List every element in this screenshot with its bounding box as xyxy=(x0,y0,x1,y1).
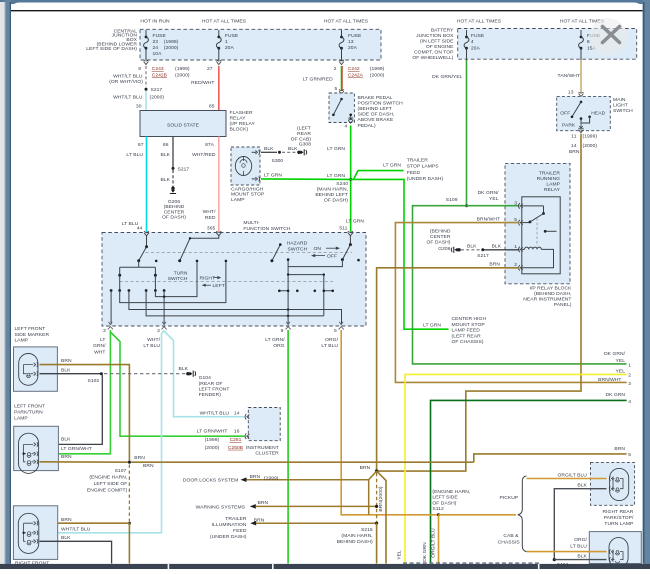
svg-text:5: 5 xyxy=(335,86,338,92)
svg-text:RED/WHT: RED/WHT xyxy=(191,80,214,86)
svg-text:(BEHIND LEFT: (BEHIND LEFT xyxy=(358,106,392,112)
wire LT GRN (brake switch to S240 to multifunction switch 511) xyxy=(350,126,352,232)
svg-text:BLK: BLK xyxy=(264,146,274,152)
svg-text:CARGO/HIGH: CARGO/HIGH xyxy=(231,186,264,192)
svg-text:LIGHT: LIGHT xyxy=(613,103,628,109)
svg-text:14: 14 xyxy=(571,143,577,149)
right blue frame bar xyxy=(643,0,650,569)
svg-text:LT GRN/RED: LT GRN/RED xyxy=(303,76,333,82)
svg-text:LT GRN/WHT: LT GRN/WHT xyxy=(197,429,228,435)
BRN junction node xyxy=(375,469,378,472)
turn switch common bar xyxy=(120,261,156,276)
svg-text:G206: G206 xyxy=(438,246,450,252)
splice warning systems xyxy=(375,505,378,508)
svg-text:(2000): (2000) xyxy=(583,143,598,149)
svg-text:YEL: YEL xyxy=(396,550,402,560)
svg-text:5: 5 xyxy=(628,452,631,458)
svg-text:YEL: YEL xyxy=(616,368,626,374)
svg-text:DK GRN/YEL: DK GRN/YEL xyxy=(432,74,463,80)
svg-text:OFF: OFF xyxy=(560,110,570,116)
svg-text:I/P RELAY BLOCK: I/P RELAY BLOCK xyxy=(530,285,573,291)
svg-text:DK GRN/: DK GRN/ xyxy=(478,190,500,196)
right front lamp pins xyxy=(34,521,36,525)
svg-text:13: 13 xyxy=(348,39,354,45)
svg-text:(2000): (2000) xyxy=(150,94,165,100)
svg-text:BLK: BLK xyxy=(61,535,71,541)
svg-text:LT BLU: LT BLU xyxy=(321,343,338,349)
ground G206 (behind center of dash) xyxy=(170,187,176,194)
svg-text:ORG/LT BLU: ORG/LT BLU xyxy=(430,528,436,558)
park/turn lamp body xyxy=(19,433,39,473)
wire DK GRN/YEL (S109 to relay pin 3 and down-left) xyxy=(413,206,627,364)
terminal 44 entry xyxy=(144,233,149,236)
svg-text:C243: C243 xyxy=(152,66,164,72)
middle blade at 365 xyxy=(180,236,219,261)
relay pin 1 xyxy=(519,247,520,253)
relay pin 5 xyxy=(519,220,520,226)
routing stub x155.4 to middle contact x197 xyxy=(155,262,197,297)
svg-text:FENDER): FENDER) xyxy=(199,392,222,398)
svg-text:LT GRN: LT GRN xyxy=(346,218,364,224)
fuse F4 20A xyxy=(466,30,468,37)
svg-text:FUSE: FUSE xyxy=(471,33,485,39)
close button X icon xyxy=(603,27,620,43)
svg-text:ORG/LT BLU: ORG/LT BLU xyxy=(557,473,587,479)
svg-text:BRN/WHT: BRN/WHT xyxy=(477,216,500,222)
svg-text:OF DASH): OF DASH) xyxy=(432,500,456,506)
svg-text:(OR WHT/VIO): (OR WHT/VIO) xyxy=(109,79,143,85)
svg-text:8: 8 xyxy=(138,66,141,72)
svg-text:POSITION SWITCH: POSITION SWITCH xyxy=(358,100,404,106)
wire LT GRN/RED (fuse 13 to brake switch) xyxy=(341,66,343,91)
svg-text:LT BLU: LT BLU xyxy=(143,343,160,349)
splice S107 xyxy=(128,461,131,464)
wire BRN (to right front lamp) xyxy=(40,522,130,524)
svg-text:COMPT, ON TOP: COMPT, ON TOP xyxy=(414,49,454,55)
svg-text:BLK: BLK xyxy=(161,177,171,183)
wire BRN (light switch down to junction with edge-5 feed) xyxy=(377,134,581,471)
svg-text:(BEHIND: (BEHIND xyxy=(430,229,451,235)
svg-text:(UNDER DASH): (UNDER DASH) xyxy=(210,534,247,540)
wire BLK (side marker to S102) xyxy=(40,373,101,375)
wire WHT/LT BLU dashed (fuse 23 to S217) xyxy=(145,66,147,87)
svg-text:G308: G308 xyxy=(299,142,311,148)
svg-text:WHT: WHT xyxy=(94,349,105,355)
svg-text:LT GRN: LT GRN xyxy=(423,322,441,328)
wire WHT/LT BLU 2000 (S217 to flasher 30) xyxy=(145,91,147,111)
svg-text:1: 1 xyxy=(514,244,517,250)
svg-text:BRN: BRN xyxy=(254,518,265,524)
wire LT GRN branch (S240 down to center high mount stop lamp feed) xyxy=(351,179,449,329)
svg-text:9: 9 xyxy=(281,328,284,334)
svg-text:BRN: BRN xyxy=(360,465,371,471)
right rear lamp pins (pickup) xyxy=(612,477,614,481)
svg-text:S300: S300 xyxy=(272,158,284,164)
svg-text:BRN: BRN xyxy=(61,358,72,364)
wire BRN (relay pin 2 to BRN junction) xyxy=(377,268,520,470)
right rear lamp box (cab & chassis) xyxy=(589,532,641,564)
connector C243/C242B pin 8 xyxy=(144,62,149,65)
svg-text:86: 86 xyxy=(163,142,169,148)
svg-text:BLK: BLK xyxy=(61,367,71,373)
svg-text:BRN: BRN xyxy=(61,517,72,523)
right front lamp internals xyxy=(24,523,33,541)
wire LT GRN/ORG (terminal 9 down to bottom) xyxy=(287,330,289,564)
svg-text:PICKUP: PICKUP xyxy=(500,495,519,501)
svg-text:BATTERY: BATTERY xyxy=(431,27,454,33)
splice S215 xyxy=(375,522,378,525)
svg-text:LEFT SIDE: LEFT SIDE xyxy=(432,495,458,501)
svg-text:SWITCH: SWITCH xyxy=(288,246,308,252)
ground G308 (left rear of cab) xyxy=(297,149,307,155)
svg-text:BRN: BRN xyxy=(569,149,580,155)
svg-text:BRN: BRN xyxy=(143,463,154,469)
svg-text:BLOCK): BLOCK) xyxy=(230,127,249,133)
svg-text:LEFT FRONT: LEFT FRONT xyxy=(14,404,45,410)
svg-text:BLK: BLK xyxy=(577,482,587,488)
svg-text:BLK: BLK xyxy=(288,146,298,152)
routing stub x119.7 to middle contact x225.9 xyxy=(120,262,226,303)
svg-text:OF CHASSIS): OF CHASSIS) xyxy=(452,339,484,345)
terminal 511 entry xyxy=(348,233,353,236)
wire BLK (flasher 86 to S217) xyxy=(172,137,174,168)
svg-text:S107: S107 xyxy=(115,468,127,474)
svg-text:HAZARD: HAZARD xyxy=(287,241,308,247)
svg-text:LT BLU: LT BLU xyxy=(126,152,143,158)
svg-text:LEFT SIDE OF DASH): LEFT SIDE OF DASH) xyxy=(86,46,137,52)
svg-text:LT: LT xyxy=(100,337,106,343)
relay actuator dashed link xyxy=(536,218,538,246)
svg-text:(2000): (2000) xyxy=(164,45,179,51)
park/turn lamp internals xyxy=(24,444,33,461)
wire LT GRN branch (S240 to trailer stop lamps feed) xyxy=(351,171,404,180)
cluster pin 14 xyxy=(245,414,246,420)
svg-text:(2000): (2000) xyxy=(175,72,190,78)
terminal 365 entry xyxy=(216,233,221,236)
svg-text:RED: RED xyxy=(205,215,216,221)
svg-text:DK GRN: DK GRN xyxy=(422,542,428,562)
svg-text:LAMP: LAMP xyxy=(14,415,28,421)
svg-text:BLK: BLK xyxy=(492,243,502,249)
svg-text:FEED: FEED xyxy=(233,528,247,534)
svg-text:G104: G104 xyxy=(199,375,211,381)
fuse F13 20A xyxy=(341,30,343,37)
svg-text:FUSE: FUSE xyxy=(348,33,362,39)
connector pin 27 xyxy=(216,62,221,65)
right rear park/stop/turn lamp box (pickup) xyxy=(591,462,635,505)
svg-text:(2000): (2000) xyxy=(370,72,385,78)
svg-text:(LEFT REAR: (LEFT REAR xyxy=(452,333,482,339)
svg-text:TURN: TURN xyxy=(174,270,188,276)
svg-text:CLUSTER: CLUSTER xyxy=(255,451,279,457)
svg-text:BLK: BLK xyxy=(161,152,171,158)
svg-text:RELAY: RELAY xyxy=(544,187,561,193)
light switch output pin xyxy=(579,130,584,133)
svg-text:SWITCH: SWITCH xyxy=(613,108,633,114)
hazard spare contact dot xyxy=(357,259,360,262)
splice S217 xyxy=(145,88,148,91)
fuse F1 20A xyxy=(218,30,220,37)
splice S109 xyxy=(465,204,468,207)
svg-text:DK GRN: DK GRN xyxy=(605,392,625,398)
wire ORG/LT BLU (brace to right rear park/stop/turn lamp) xyxy=(527,478,607,480)
wire BLK dashed (S300 to G308) xyxy=(282,151,298,153)
wire ORG/LT BLU (S112 drop to bottom) xyxy=(438,515,440,564)
svg-text:LEFT: LEFT xyxy=(213,283,225,289)
svg-text:87A: 87A xyxy=(205,142,215,148)
svg-text:(ENGINE HARN,: (ENGINE HARN, xyxy=(89,475,127,481)
svg-text:(IN LEFT SIDE: (IN LEFT SIDE xyxy=(420,38,454,44)
svg-text:WHT/LT BLU: WHT/LT BLU xyxy=(113,94,143,100)
svg-text:WHT/: WHT/ xyxy=(203,209,216,215)
svg-text:RIGHT FRONT: RIGHT FRONT xyxy=(15,561,49,567)
svg-text:BLK: BLK xyxy=(61,437,71,443)
svg-text:CAB &: CAB & xyxy=(503,533,519,539)
page-edge dash row xyxy=(403,562,540,564)
wire BLK dashed (S102 to G104) xyxy=(104,373,186,375)
svg-text:LAMP: LAMP xyxy=(546,181,560,187)
svg-text:44: 44 xyxy=(137,225,143,231)
brake pedal position switch box xyxy=(329,93,354,123)
long routing line to terminal 5 xyxy=(129,291,342,325)
svg-text:C251: C251 xyxy=(230,437,242,443)
svg-text:LT BLU: LT BLU xyxy=(570,544,587,550)
svg-text:LT GRN/: LT GRN/ xyxy=(265,337,285,343)
svg-text:BRN: BRN xyxy=(250,474,261,480)
svg-text:WHT/RED: WHT/RED xyxy=(192,152,216,158)
wire BLK (cargo lamp to S300) xyxy=(261,151,277,153)
lower contact dots and bars xyxy=(279,290,332,292)
wire BLK (S404 to cab & chassis lamp) xyxy=(554,559,606,561)
svg-text:3: 3 xyxy=(103,328,106,334)
svg-text:(BEHIND: (BEHIND xyxy=(164,204,185,210)
svg-text:CHASSIS: CHASSIS xyxy=(498,539,521,545)
svg-text:PARK: PARK xyxy=(562,123,576,129)
cargo/high mount stop lamp box xyxy=(231,147,260,185)
close button halo xyxy=(589,18,627,56)
right rear lamp body (pickup) xyxy=(610,468,629,500)
multi-function switch box xyxy=(102,233,366,327)
relay contact and blade xyxy=(522,206,544,213)
svg-text:BLK: BLK xyxy=(467,243,477,249)
contact dot row xyxy=(110,289,113,292)
svg-text:RELAY: RELAY xyxy=(230,116,247,122)
svg-text:(1999): (1999) xyxy=(583,134,598,140)
dashed linkage line upper xyxy=(146,251,353,253)
right front lamp box xyxy=(13,506,57,560)
wire ORG/LT BLU (S112 to brace) xyxy=(439,514,517,516)
svg-text:LEFT SIDE OF: LEFT SIDE OF xyxy=(94,481,128,487)
svg-text:87: 87 xyxy=(138,142,144,148)
svg-text:G206: G206 xyxy=(168,199,180,205)
wire LT GRN/WHT branch (to instrument cluster 16) xyxy=(110,332,244,436)
svg-text:C250B: C250B xyxy=(228,445,244,451)
right front lamp body xyxy=(18,513,39,553)
svg-text:HOT AT ALL TIMES: HOT AT ALL TIMES xyxy=(202,19,247,25)
svg-text:S217: S217 xyxy=(477,253,489,259)
svg-text:OF WHEELWELL): OF WHEELWELL) xyxy=(412,55,453,61)
connector C242/C242A pin 2 xyxy=(339,62,344,65)
terminal 9 exit xyxy=(286,322,290,325)
wire ORG/LT BLU (brace to cab & chassis lamp) xyxy=(527,551,607,553)
svg-text:30: 30 xyxy=(136,104,142,110)
wire BRN dashed (S107 down to right front lamp) xyxy=(128,465,130,522)
turn switch blade at 44 xyxy=(146,236,148,247)
splice at right front lamp feed xyxy=(128,522,131,525)
svg-text:LAMP: LAMP xyxy=(15,338,29,344)
left blue frame bar xyxy=(5,0,12,569)
svg-text:FLASHER: FLASHER xyxy=(230,110,254,116)
svg-text:PEDAL): PEDAL) xyxy=(358,123,376,129)
svg-text:ABOVE BRAKE: ABOVE BRAKE xyxy=(358,117,394,123)
hazard OFF arrow xyxy=(315,255,325,257)
relay coil xyxy=(522,247,554,268)
svg-text:ILLUMINATION: ILLUMINATION xyxy=(212,522,247,528)
svg-text:LAMP: LAMP xyxy=(231,197,245,203)
right rear lamp pins (cab & chassis) xyxy=(612,550,614,554)
main light switch box xyxy=(557,96,611,130)
right rear lamp internals (cab & chassis) xyxy=(613,552,623,560)
svg-text:RUNNING: RUNNING xyxy=(537,176,561,182)
svg-text:SOLID STATE: SOLID STATE xyxy=(167,122,200,128)
svg-text:REAR: REAR xyxy=(297,131,311,137)
svg-text:BEHIND LEFT: BEHIND LEFT xyxy=(315,192,348,198)
splice S300 xyxy=(278,151,281,154)
routing to terminal 2 xyxy=(163,291,165,325)
wire BLK dashed (G206 to S217) xyxy=(461,249,480,251)
wire BRN (S107 feed stepping to trailer connector 5) xyxy=(474,454,627,462)
svg-text:CENTER HIGH: CENTER HIGH xyxy=(452,316,487,322)
svg-text:S217: S217 xyxy=(151,87,163,93)
svg-text:3: 3 xyxy=(628,381,631,387)
svg-text:1: 1 xyxy=(225,39,228,45)
svg-text:PARK/TURN: PARK/TURN xyxy=(14,410,43,416)
svg-text:BRN: BRN xyxy=(61,454,72,460)
wire DK GRN/YEL (fuse 4 to S109) xyxy=(466,60,468,206)
left front side marker lamp box xyxy=(14,347,58,391)
svg-text:BRN/WHT: BRN/WHT xyxy=(598,377,621,383)
svg-text:(UNDER DASH): (UNDER DASH) xyxy=(407,176,444,182)
pickup / cab chassis brace xyxy=(518,476,527,552)
wire BLK (right front lamp down to bottom) xyxy=(40,541,112,563)
svg-text:13: 13 xyxy=(568,89,574,95)
wire ORG/LT BLU (terminal 5 down to S112 feed) xyxy=(341,330,438,515)
svg-text:FEED: FEED xyxy=(407,170,421,176)
svg-text:OF DASH): OF DASH) xyxy=(324,198,348,204)
left outer grey strip xyxy=(0,2,5,569)
svg-text:85: 85 xyxy=(209,104,215,110)
svg-text:NEAR INSTRUMENT: NEAR INSTRUMENT xyxy=(523,296,571,302)
svg-text:SIDE MARKER: SIDE MARKER xyxy=(15,332,50,338)
svg-text:BRAKE PEDAL: BRAKE PEDAL xyxy=(358,95,393,101)
wire LT BLU (flasher 87 to multifunction switch 44) xyxy=(146,137,148,232)
central junction box (fuses 23/24, 1, 13) xyxy=(140,29,381,60)
left front park/turn lamp box xyxy=(14,426,59,470)
svg-text:S112: S112 xyxy=(432,506,444,512)
dashed linkage line lower xyxy=(120,280,333,282)
right rear lamp body (cab & chassis) xyxy=(609,538,628,568)
svg-text:FUSE: FUSE xyxy=(153,33,167,39)
svg-text:(1999): (1999) xyxy=(264,476,279,482)
svg-text:RIGHT REAR: RIGHT REAR xyxy=(603,509,634,515)
window background top strip xyxy=(0,0,650,4)
svg-text:FUSE: FUSE xyxy=(225,33,239,39)
wire LT GRN/WHT (terminal 3 to left front park/turn lamp) xyxy=(40,330,111,454)
flasher relay solid state box xyxy=(140,111,226,137)
hazard common routing xyxy=(288,260,342,325)
svg-text:ENGINE COMPT): ENGINE COMPT) xyxy=(87,487,128,493)
wire BRN diagonal to door locks / S112 drop xyxy=(369,471,377,515)
svg-text:TURN LAMP: TURN LAMP xyxy=(604,521,634,527)
svg-text:LT GRN/WHT: LT GRN/WHT xyxy=(61,446,92,452)
splice S217 at relay xyxy=(481,248,484,251)
wire BRN (below right-front feed to bottom) xyxy=(128,523,130,563)
terminal 2 exit xyxy=(162,322,166,325)
routing to terminal 3 xyxy=(110,291,112,325)
right rear lamp internals (pickup) xyxy=(613,479,623,489)
svg-text:27: 27 xyxy=(207,66,213,72)
svg-text:FUNCTION SWITCH: FUNCTION SWITCH xyxy=(243,226,290,232)
wire BRN (S215 down to bottom) xyxy=(376,523,378,563)
svg-text:5: 5 xyxy=(334,328,337,334)
svg-text:LT GRN: LT GRN xyxy=(264,173,282,179)
instrument cluster box xyxy=(248,408,280,441)
svg-text:RIGHT: RIGHT xyxy=(200,275,216,281)
svg-text:(REAR OF: (REAR OF xyxy=(199,381,223,387)
splice S217 on BLK xyxy=(172,167,175,170)
svg-text:LEFT FRONT: LEFT FRONT xyxy=(199,386,230,392)
svg-text:OF CAB): OF CAB) xyxy=(291,136,312,142)
svg-text:(2000): (2000) xyxy=(205,445,220,451)
svg-text:GRN/: GRN/ xyxy=(93,343,106,349)
svg-text:BRN: BRN xyxy=(134,455,145,461)
svg-text:(1999): (1999) xyxy=(205,437,220,443)
svg-text:LT GRN: LT GRN xyxy=(327,173,345,179)
svg-text:(1999): (1999) xyxy=(164,39,179,45)
svg-text:CENTER: CENTER xyxy=(164,209,185,215)
wire BRN (park/turn lamp through S107 to edge-5 step) xyxy=(40,461,474,463)
hazard blade left xyxy=(272,245,280,261)
cargo lamp pins xyxy=(252,151,256,153)
relay pin 3 xyxy=(519,203,520,209)
svg-text:1: 1 xyxy=(628,363,631,369)
svg-text:MULTI-: MULTI- xyxy=(243,220,260,226)
splice S240 xyxy=(349,178,352,181)
wire BLK dashed (S217 to G206) xyxy=(172,170,174,188)
svg-text:511: 511 xyxy=(339,225,347,231)
svg-text:LT GRN: LT GRN xyxy=(383,163,401,169)
svg-text:WHT/: WHT/ xyxy=(147,337,160,343)
fuse F8 15A xyxy=(580,30,582,37)
svg-text:PANEL): PANEL) xyxy=(554,302,572,308)
turn switch contact drops xyxy=(120,275,156,290)
svg-text:14: 14 xyxy=(234,411,240,417)
splice S112 xyxy=(437,513,440,516)
wire BLK (S102 down to park/turn lamp) xyxy=(40,375,103,444)
side marker lamp body xyxy=(19,354,38,386)
splice S404 xyxy=(553,558,556,561)
cargo lamp bulb symbol xyxy=(235,157,251,176)
middle contact dots xyxy=(155,260,158,263)
svg-text:ORG/: ORG/ xyxy=(325,337,338,343)
svg-text:(1999): (1999) xyxy=(175,66,190,72)
svg-text:OF ENGINE: OF ENGINE xyxy=(426,44,454,50)
svg-text:A BATTERY: A BATTERY xyxy=(470,564,498,569)
svg-text:16: 16 xyxy=(234,429,240,435)
svg-text:LAMP FEED: LAMP FEED xyxy=(452,328,481,334)
svg-text:MOUNT STOP: MOUNT STOP xyxy=(452,322,486,328)
svg-text:TRAILER: TRAILER xyxy=(539,170,561,176)
